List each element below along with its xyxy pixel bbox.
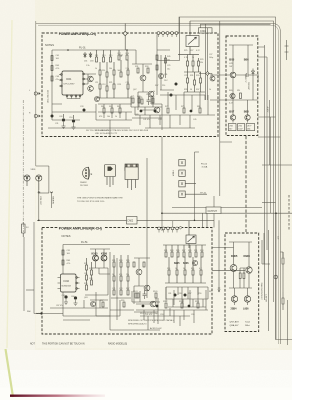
- bottom interior wires R-CH: [42, 292, 190, 330]
- output box wires upper: [227, 45, 258, 100]
- test point square TP1: [179, 160, 185, 166]
- transistor Q09: [154, 107, 160, 113]
- page frame top and right double border: [36, 24, 280, 345]
- micro labels right R-CH: [164, 250, 203, 295]
- labels Q51 Q53: [92, 253, 108, 256]
- capacitor C05o: [244, 73, 252, 77]
- package drawing TO-92 bottom view: [83, 167, 93, 179]
- resistor R73a: [138, 98, 140, 103]
- R-CH title: [58, 225, 104, 230]
- R output box wires lower: [235, 288, 248, 305]
- relay RY01 box with arrow: [178, 21, 199, 55]
- electrolytic capacitor C45: [190, 110, 193, 113]
- capacitor C01 cluster labels: [56, 55, 61, 81]
- test point square TP2: [179, 170, 185, 176]
- small text mid box: [229, 90, 240, 105]
- capacitor C75: [143, 290, 147, 299]
- R-CH mid wires: [63, 249, 117, 330]
- transistor Q05o: [230, 72, 236, 78]
- transistor Q53 dark: [101, 255, 107, 261]
- test point square TP3: [179, 181, 185, 187]
- electrolytic capacitor C33: [83, 109, 86, 112]
- speaker connector arrow: [218, 288, 220, 292]
- resistor R61a: [103, 108, 105, 113]
- maroon scan edge bottom: [0, 0, 1, 1]
- resistor R95: [137, 293, 139, 298]
- IC02 pins: [58, 277, 80, 290]
- lower mid cluster wires R-CH: [132, 287, 208, 323]
- extra labels rail: [84, 61, 93, 68]
- resistor R35: [141, 99, 143, 104]
- footnote text inside R-CH box: [128, 319, 175, 330]
- right horizontal stubs: [258, 47, 267, 57]
- electrolytic capacitor C66: [71, 296, 77, 300]
- wires right of R output box: [262, 230, 283, 331]
- vertical wire x162: [161, 137, 163, 231]
- supply rail wire: [52, 50, 136, 120]
- double vertical wire x206: [206, 24, 208, 100]
- vertical wire x194: [194, 152, 196, 220]
- electrolytic capacitor C95: [188, 305, 191, 308]
- resistor R02: [51, 66, 53, 71]
- electrolytic capacitor C21: [175, 83, 178, 86]
- transistor Q908: [244, 296, 250, 302]
- transistor Q03: [88, 86, 94, 92]
- resistor R79: [183, 108, 185, 113]
- transistor Q11: [159, 74, 164, 79]
- IC01 op-amp: [62, 71, 83, 95]
- transistor Q61: [192, 260, 197, 265]
- speaker feed wire x219: [218, 220, 220, 288]
- micro labels bottom L-CH: [55, 106, 120, 132]
- resistor R31: [137, 68, 139, 73]
- electrolytic capacitor C09: [59, 114, 65, 122]
- diamond junction right: [206, 72, 210, 76]
- diode D03: [89, 52, 92, 58]
- resistor R42: [156, 65, 158, 70]
- long vertical wire x179: [157, 17, 180, 61]
- corner wire x221: [220, 21, 232, 196]
- left dash-dot fold line: [22, 100, 24, 232]
- left stub wire y290: [26, 289, 34, 291]
- transistor Q15: [95, 97, 100, 102]
- micro labels bottom R-CH: [56, 297, 157, 315]
- ground symbol G4: [74, 300, 78, 306]
- resistor R99: [123, 302, 125, 307]
- resistor R107: [165, 303, 167, 308]
- electrolytic capacitor C43: [154, 110, 157, 113]
- junction dot bus c: [275, 212, 277, 214]
- package TO-92 lead labels: [80, 181, 88, 187]
- resistor R43: [165, 58, 167, 63]
- main bus wire lower: [24, 21, 292, 345]
- transistor Q06o: [230, 93, 235, 98]
- output box wires lower: [233, 100, 248, 123]
- test point square TP4: [179, 191, 185, 197]
- electrolytic capacitor C31: [51, 115, 54, 118]
- resistor RE1: [240, 93, 242, 99]
- bottom margin paper: [0, 350, 292, 400]
- pre/main jumper wires: [39, 183, 52, 220]
- resistor network rows mid: [96, 60, 132, 98]
- transistor Q59: [150, 301, 156, 307]
- transistor Q55: [136, 269, 142, 275]
- mid wires L-CH: [132, 50, 162, 130]
- relay RY02 box with arrow: [186, 221, 196, 248]
- nested corner wires top-right: [179, 17, 292, 340]
- micro labels lower mid L-CH: [131, 96, 200, 121]
- transistor Q08o: [245, 115, 250, 120]
- part tag P1: [228, 124, 236, 131]
- resistor R105: [155, 293, 157, 298]
- R-CH output transistors dashed box: [225, 233, 259, 332]
- diode D05o: [252, 69, 255, 77]
- transistor Q57: [144, 285, 150, 291]
- green scan edge bottom-left: [6, 349, 14, 397]
- resistor network rows top: [96, 50, 129, 62]
- electrolytic capacitor C81: [174, 294, 177, 297]
- verticals into R-CH top: [203, 213, 208, 227]
- R-CH mid wires 2: [134, 158, 158, 324]
- supply rail wire R: [63, 245, 130, 317]
- part tag P2: [238, 124, 245, 131]
- resistor RZ2 right margin: [282, 292, 284, 310]
- dashed link wire between output boxes: [245, 136, 247, 232]
- resistor grid R-CH center: [111, 255, 131, 298]
- resistor R33: [147, 68, 149, 73]
- electrolytic capacitor C83: [184, 294, 187, 297]
- horizontal wire y73 right: [160, 74, 206, 101]
- resistor R71a: [132, 98, 134, 103]
- R-CH amplifier dashed box: [42, 228, 212, 335]
- TP wires: [185, 152, 207, 194]
- output label box: [206, 207, 221, 214]
- labels mid L-CH: [133, 66, 155, 116]
- transistor Q906: [246, 267, 252, 273]
- page left edge line: [35, 21, 37, 166]
- resistor R91: [133, 262, 135, 267]
- micro labels R-CH mid: [84, 263, 92, 285]
- part tag P3: [246, 124, 254, 131]
- electrolytic capacitor C93: [156, 305, 159, 308]
- part table text bottom: [230, 321, 251, 328]
- package drawing TO-126: [105, 165, 116, 188]
- electrolytic capacitor C10: [69, 115, 75, 123]
- bus wire to right edge: [161, 212, 292, 214]
- lower mid cluster wires L-CH: [131, 92, 215, 128]
- electrolytic capacitor C23: [170, 94, 173, 97]
- resistor RZ1 right margin: [282, 252, 284, 270]
- right section R-CH lower wires: [166, 287, 208, 307]
- right cluster text labels: [184, 50, 213, 91]
- connector circles on L-CH top edge: [157, 32, 178, 35]
- ground symbol G1: [62, 122, 66, 129]
- transistor Q05: [140, 75, 146, 81]
- jack connector tick 2: [50, 191, 53, 192]
- diamond junction node: [123, 31, 127, 36]
- resistor R63: [62, 260, 64, 265]
- bus wire upper: [172, 207, 262, 209]
- wire mesh left-mid: [52, 74, 96, 112]
- transistor Q13: [208, 74, 216, 82]
- ground symbol G3: [64, 299, 68, 305]
- junction dot rail a: [67, 49, 69, 51]
- L-CH output transistors dashed box: [226, 36, 258, 136]
- transistor Q51 dark: [93, 255, 99, 261]
- resistor R41: [156, 55, 158, 60]
- transistor Q07: [148, 91, 154, 97]
- vertical wire x214: [213, 196, 215, 228]
- connector CN02: [127, 217, 138, 225]
- small marks beyond frame top right: [285, 40, 289, 60]
- connecting wires R-CH to output box: [212, 248, 245, 271]
- diamond junction R-CH edge: [179, 226, 182, 229]
- electrolytic capacitor C41: [140, 110, 143, 113]
- right bus verticals: [264, 45, 266, 300]
- resistor R65a: [119, 108, 121, 113]
- footnote note line: [30, 343, 127, 346]
- connector circle right: [274, 275, 278, 279]
- coil L901: [36, 313, 42, 315]
- capacitor labels R-CH left: [67, 250, 72, 265]
- connecting wires L-CH to output box: [210, 75, 227, 100]
- input jack J2: [36, 175, 42, 190]
- resistor R03: [51, 76, 53, 81]
- emitter resistor RE3: [239, 273, 241, 279]
- connector circles on R-CH top edge: [158, 227, 179, 230]
- IC02 op-amp: [61, 274, 77, 292]
- paper noise texture: [0, 0, 1, 1]
- right section R-CH resistor row A: [163, 245, 206, 257]
- connector stubs R-CH top: [159, 221, 177, 233]
- left margin wires: jack feed: [36, 166, 49, 191]
- resistor R81a: [199, 108, 201, 113]
- left margin paper: [0, 0, 35, 400]
- junction dot bus d: [38, 220, 40, 222]
- speaker connector on fold line: [22, 222, 30, 237]
- resistor R97: [102, 302, 104, 307]
- junction dot rail b: [126, 49, 128, 51]
- plug symbol on left wire 2: [29, 113, 40, 118]
- micro labels grid L-CH: [95, 53, 129, 86]
- diode D01: [84, 52, 87, 58]
- lower right verticals: [275, 213, 277, 339]
- bottom interior wires L-CH: [48, 104, 132, 137]
- junction dot bus a: [161, 212, 163, 214]
- micro labels R-CH center: [112, 260, 129, 290]
- R output box wires upper: [229, 242, 252, 288]
- left cluster wires x157: [157, 34, 174, 95]
- faint page edge tint left: [7, 20, 12, 348]
- transistor Q07o: [230, 115, 235, 120]
- frame interior paper: [36, 24, 279, 348]
- transistor Q63: [91, 302, 96, 307]
- one-point ground note text: [77, 197, 123, 204]
- IC01 pins: [59, 73, 86, 98]
- emitter resistor RE4: [243, 273, 245, 279]
- plug symbol on left wire 1: [29, 90, 40, 95]
- right section R-CH resistor row B: [165, 257, 206, 283]
- right cluster resistors row2: [184, 72, 205, 92]
- resistor R111: [197, 303, 199, 308]
- transistor Q01: [88, 76, 94, 82]
- resistor R61: [62, 250, 64, 255]
- junction dot bus b: [194, 220, 196, 222]
- capacitor C17: [147, 96, 151, 105]
- resistor R103: [135, 293, 137, 298]
- dashed stub right edge top: [288, 195, 290, 231]
- value text under B05: [229, 63, 233, 68]
- right cluster resistors row: [184, 55, 201, 72]
- transistor Q905: [230, 265, 237, 272]
- transistor Q907: [231, 296, 237, 302]
- electrolytic capacitor C65: [62, 295, 68, 299]
- resistor R93: [143, 262, 145, 267]
- package drawing TO-3P: [125, 164, 138, 190]
- wire from top edge into L-CH: [124, 24, 126, 51]
- L-CH title: [58, 31, 98, 36]
- resistor R75a: [152, 98, 154, 103]
- electrolytic capacitor C91: [142, 305, 145, 308]
- resistor column R-CH a: [86, 258, 93, 290]
- micro labels left cluster: [155, 56, 170, 87]
- connector circle stubs: [159, 34, 177, 37]
- R-CH left wire: [34, 222, 42, 314]
- bold labels mid right: [174, 262, 189, 265]
- resistor R01: [51, 56, 53, 61]
- connector CN01: [199, 28, 213, 33]
- speaker wire left: [23, 237, 25, 311]
- jack connector tick 1: [38, 191, 49, 194]
- resistor R63a: [111, 108, 113, 113]
- ground symbol G2: [72, 123, 76, 130]
- L-CH amplifier dashed box: [42, 33, 218, 137]
- resistor R77: [167, 108, 169, 113]
- footnote text inside L-CH box: [95, 129, 149, 135]
- micro labels lower mid R-CH: [133, 291, 199, 316]
- resistor R109: [181, 303, 183, 308]
- input jack J1: [24, 175, 30, 186]
